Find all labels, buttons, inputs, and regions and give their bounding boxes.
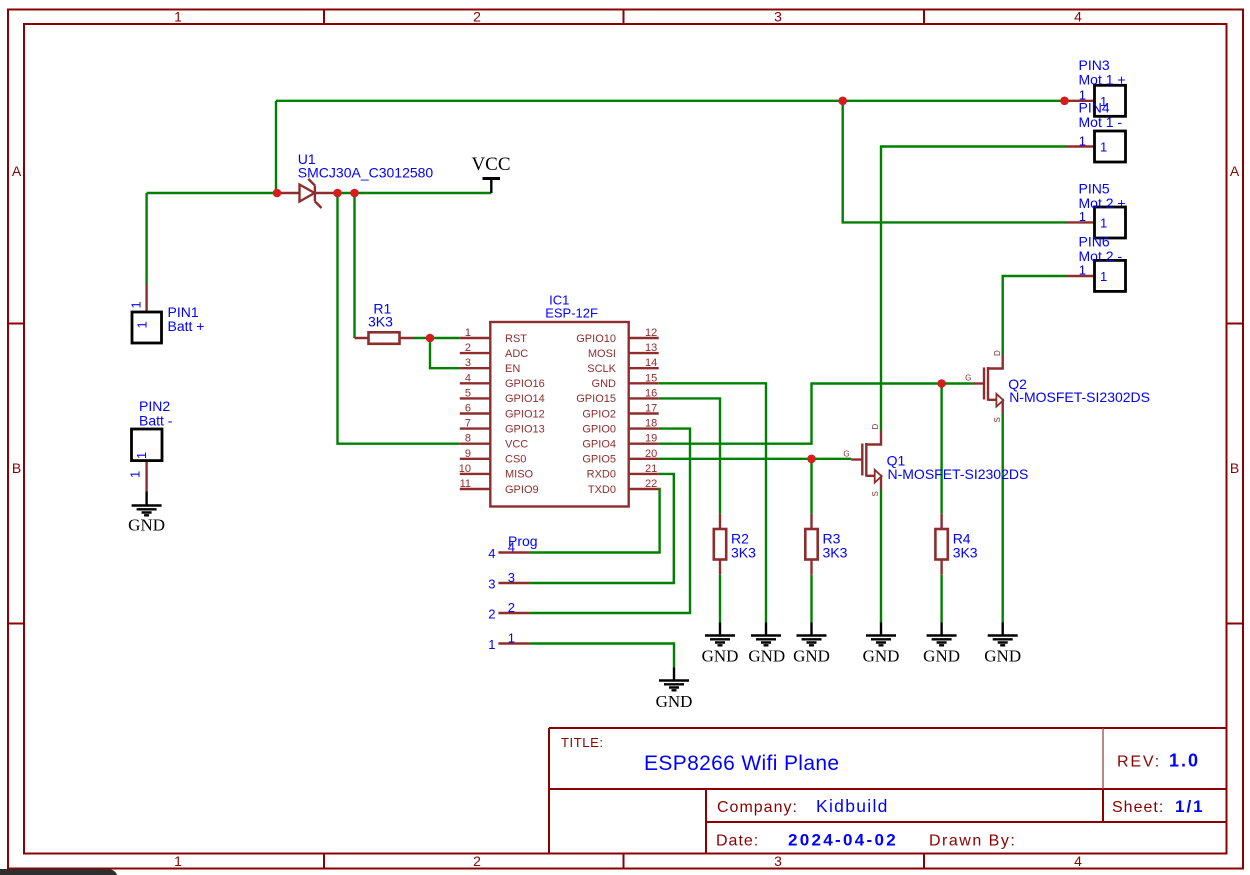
svg-text:GND: GND: [656, 692, 693, 711]
svg-text:GPIO0: GPIO0: [582, 423, 616, 435]
svg-text:GPIO5: GPIO5: [582, 454, 616, 466]
wire batt+ riser to PIN1: [145, 193, 147, 285]
svg-text:GPIO4: GPIO4: [582, 439, 616, 451]
svg-text:G: G: [965, 374, 971, 383]
svg-text:N-MOSFET-SI2302DS: N-MOSFET-SI2302DS: [1009, 389, 1150, 405]
svg-text:A: A: [1230, 163, 1240, 179]
svg-text:2: 2: [465, 342, 471, 354]
junction node at R1 output: [426, 334, 435, 343]
svg-text:B: B: [1230, 460, 1239, 476]
ground below Q2 source: [984, 622, 1021, 665]
svg-text:GND: GND: [592, 378, 617, 390]
svg-text:GPIO2: GPIO2: [582, 408, 616, 420]
wire Prog pin1 to ground: [530, 644, 674, 668]
ground below PIN2: [128, 492, 165, 535]
svg-text:MISO: MISO: [505, 469, 534, 481]
svg-text:1: 1: [135, 321, 150, 328]
svg-text:3: 3: [465, 357, 471, 369]
wire diode cathode to VCC: [337, 192, 491, 194]
svg-text:G: G: [843, 450, 849, 459]
svg-text:3K3: 3K3: [823, 545, 848, 561]
ground below R3: [793, 622, 830, 665]
ground below Prog pin1: [656, 668, 693, 712]
svg-text:VCC: VCC: [505, 439, 528, 451]
svg-text:Mot 2 -: Mot 2 -: [1079, 248, 1123, 264]
junction node at Q2 gate / R4: [937, 379, 946, 388]
svg-text:Prog: Prog: [508, 533, 538, 549]
connector PIN4 Mot 1 -: [1067, 100, 1126, 162]
svg-text:15: 15: [645, 372, 657, 384]
svg-text:9: 9: [465, 448, 471, 460]
svg-text:14: 14: [645, 357, 657, 369]
junction node at rail/PIN3: [1060, 97, 1069, 106]
svg-text:Kidbuild: Kidbuild: [816, 796, 889, 816]
svg-text:1: 1: [134, 452, 149, 459]
svg-text:1: 1: [129, 301, 144, 308]
svg-text:Company:: Company:: [717, 799, 798, 816]
svg-text:Mot 2 +: Mot 2 +: [1079, 195, 1126, 211]
wire R1 to IC pin1: [414, 337, 460, 339]
svg-text:4: 4: [1074, 9, 1082, 25]
ground below IC pin15 wire: [748, 622, 785, 665]
svg-text:B: B: [12, 460, 21, 476]
wire VCC rail top: [276, 100, 1064, 102]
svg-text:RST: RST: [505, 333, 527, 345]
wire IC pin19 GPIO4 to Q2 gate: [659, 384, 973, 444]
IC1 right pins 12-22: [576, 327, 658, 496]
svg-text:18: 18: [645, 418, 657, 430]
resistor R4 3K3: [935, 514, 977, 575]
svg-text:3K3: 3K3: [953, 545, 978, 561]
wire rail branch down to PIN5: [843, 101, 1067, 223]
junction node at rail/diode anode: [273, 189, 282, 198]
svg-text:S: S: [871, 491, 880, 496]
ground below R2: [702, 622, 739, 665]
svg-text:17: 17: [645, 403, 657, 415]
svg-text:3K3: 3K3: [731, 545, 756, 561]
svg-text:3: 3: [488, 577, 495, 592]
junction node at Q1 gate / R3: [807, 455, 816, 464]
wire R2 bottom to ground: [719, 575, 721, 622]
svg-text:2: 2: [508, 600, 515, 615]
svg-text:D: D: [871, 424, 880, 430]
svg-text:4: 4: [1074, 853, 1082, 869]
svg-text:GND: GND: [984, 647, 1021, 666]
svg-text:1: 1: [1079, 133, 1086, 148]
connector Prog pin 1: [488, 631, 529, 652]
svg-text:SCLK: SCLK: [587, 363, 616, 375]
svg-text:4: 4: [488, 546, 495, 561]
svg-text:ADC: ADC: [505, 348, 528, 360]
svg-text:REV:: REV:: [1117, 754, 1161, 771]
svg-text:2: 2: [473, 9, 481, 25]
wire R4 branch from Q2 gate net: [940, 384, 942, 514]
wire Q1 source to ground: [880, 490, 882, 623]
IC1 ESP-12F body: [490, 293, 628, 507]
wire IC pin16 GPIO15 to R2: [659, 398, 720, 513]
wire R3 branch from Q1 gate net: [810, 459, 812, 514]
svg-text:19: 19: [645, 433, 657, 445]
svg-text:Date:: Date:: [716, 833, 759, 850]
svg-text:ESP8266 Wifi Plane: ESP8266 Wifi Plane: [644, 752, 839, 775]
wire R4 bottom to ground: [940, 575, 942, 622]
svg-text:2: 2: [488, 607, 495, 622]
title block borders: [549, 728, 1227, 854]
resistor R1 3K3: [355, 301, 415, 344]
wire IC pin15 GND to ground: [659, 383, 766, 622]
connector PIN2 Batt -: [128, 398, 173, 492]
svg-text:GPIO16: GPIO16: [505, 378, 545, 390]
wire IC pin21 RXD0 to Prog pin3: [530, 474, 674, 583]
svg-text:RXD0: RXD0: [587, 469, 616, 481]
resistor R3 3K3: [805, 514, 847, 575]
svg-text:1: 1: [1079, 263, 1086, 278]
svg-text:A: A: [12, 163, 22, 179]
connector Prog pin 4: [488, 533, 537, 561]
svg-text:13: 13: [645, 342, 657, 354]
transistor Q2 N-MOSFET-SI2302DS: [965, 350, 1150, 423]
svg-text:1.0: 1.0: [1169, 751, 1200, 771]
svg-text:1: 1: [1100, 215, 1107, 230]
svg-text:8: 8: [465, 433, 471, 445]
svg-text:GND: GND: [923, 647, 960, 666]
svg-text:MOSI: MOSI: [588, 348, 616, 360]
wire R1 node to IC pin3: [430, 338, 460, 368]
svg-text:4: 4: [465, 372, 471, 384]
svg-text:5: 5: [465, 387, 471, 399]
svg-text:GPIO9: GPIO9: [505, 484, 539, 496]
svg-text:ESP-12F: ESP-12F: [545, 305, 598, 320]
svg-text:21: 21: [645, 463, 657, 475]
resistor R2 3K3: [714, 514, 756, 575]
svg-text:7: 7: [465, 418, 471, 430]
wire IC pin20 GPIO5 to Q1 gate: [659, 458, 852, 460]
svg-text:1: 1: [488, 637, 495, 652]
svg-text:TITLE:: TITLE:: [561, 735, 604, 750]
svg-text:CS0: CS0: [505, 454, 526, 466]
svg-text:1: 1: [508, 631, 515, 646]
junction node at R1 branch: [350, 189, 359, 198]
connector Prog pin 3: [488, 570, 529, 591]
dark blob bottom-left: [0, 869, 118, 875]
svg-text:TXD0: TXD0: [588, 484, 616, 496]
svg-text:GND: GND: [702, 647, 739, 666]
svg-text:1: 1: [174, 9, 182, 25]
svg-text:1: 1: [1079, 209, 1086, 224]
svg-text:1: 1: [174, 853, 182, 869]
svg-text:Sheet:: Sheet:: [1112, 799, 1164, 816]
svg-text:GPIO10: GPIO10: [576, 333, 616, 345]
svg-text:10: 10: [459, 463, 471, 475]
svg-text:1: 1: [1100, 269, 1107, 284]
connector Prog pin 2: [488, 600, 529, 621]
svg-text:1: 1: [128, 471, 143, 478]
svg-text:2024-04-02: 2024-04-02: [788, 831, 898, 850]
connector PIN1 Batt +: [129, 285, 205, 344]
svg-text:EN: EN: [505, 363, 520, 375]
wire PIN6 to Q2 drain: [1003, 276, 1067, 355]
svg-text:GPIO12: GPIO12: [505, 408, 545, 420]
connector PIN5 Mot 2 +: [1067, 181, 1126, 239]
connector PIN6 Mot 2 -: [1067, 234, 1126, 292]
svg-text:Mot 1 +: Mot 1 +: [1079, 72, 1126, 88]
svg-text:GND: GND: [128, 516, 165, 535]
svg-text:Batt +: Batt +: [168, 318, 205, 334]
svg-text:1: 1: [1100, 140, 1107, 155]
svg-text:Drawn By:: Drawn By:: [929, 833, 1016, 850]
svg-text:6: 6: [465, 403, 471, 415]
svg-text:D: D: [993, 350, 1002, 356]
svg-text:S: S: [993, 417, 1002, 422]
svg-text:3: 3: [508, 570, 515, 585]
IC1 left pins 1-11: [459, 327, 545, 496]
ground below R4: [923, 622, 960, 665]
wire Q2 source to ground: [1002, 414, 1004, 623]
wire VCC branch down to R1: [353, 193, 355, 338]
svg-text:12: 12: [645, 327, 657, 339]
svg-text:GPIO14: GPIO14: [505, 393, 545, 405]
connector PIN3 Mot 1 +: [1067, 57, 1126, 116]
wire IC pin22 TXD0 to Prog pin4: [530, 489, 660, 553]
svg-text:Mot 1 -: Mot 1 -: [1079, 114, 1123, 130]
svg-text:GND: GND: [793, 647, 830, 666]
transistor Q1 N-MOSFET-SI2302DS: [843, 424, 1028, 497]
junction node at diode cathode: [333, 189, 342, 198]
svg-text:GND: GND: [748, 647, 785, 666]
svg-text:11: 11: [460, 478, 471, 490]
VCC power symbol: [471, 154, 510, 193]
svg-text:GPIO15: GPIO15: [576, 393, 616, 405]
svg-text:VCC: VCC: [471, 154, 510, 175]
svg-text:3: 3: [774, 9, 782, 25]
svg-text:22: 22: [645, 478, 657, 490]
wire batt+ to diode anode: [147, 192, 277, 194]
svg-text:SMCJ30A_C3012580: SMCJ30A_C3012580: [298, 165, 434, 181]
svg-text:1/1: 1/1: [1175, 797, 1205, 816]
svg-text:GPIO13: GPIO13: [505, 423, 545, 435]
svg-text:20: 20: [645, 448, 657, 460]
svg-text:GND: GND: [863, 647, 900, 666]
wire IC pin18 GPIO0 to Prog pin2: [530, 429, 690, 613]
svg-text:1: 1: [465, 327, 471, 339]
svg-text:N-MOSFET-SI2302DS: N-MOSFET-SI2302DS: [888, 466, 1029, 482]
junction node at rail/PIN5 branch: [838, 97, 847, 106]
svg-text:3K3: 3K3: [368, 313, 393, 329]
diode U1 SMCJ30A TVS: [277, 151, 433, 208]
wire R3 bottom to ground: [810, 575, 812, 622]
ground below Q1 source: [863, 622, 900, 665]
svg-text:16: 16: [645, 387, 657, 399]
wire rail left riser: [275, 101, 277, 193]
wire VCC branch down to IC pin8: [338, 193, 460, 444]
wire PIN4 to Q1 drain: [881, 147, 1067, 431]
svg-text:2: 2: [473, 853, 481, 869]
svg-text:3: 3: [774, 853, 782, 869]
svg-text:Batt -: Batt -: [139, 413, 173, 429]
